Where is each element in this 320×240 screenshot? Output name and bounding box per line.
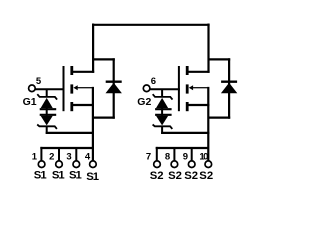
diode D1 body diode xyxy=(92,58,122,118)
wire top drain rail xyxy=(92,24,210,26)
node G1 terminal circle xyxy=(29,85,36,92)
Z2b cathode bar xyxy=(153,125,173,129)
wire right pin bus xyxy=(156,147,209,149)
svg-text:S2: S2 xyxy=(168,170,182,182)
wire Z2 middle vertical xyxy=(161,108,163,116)
svg-text:10: 10 xyxy=(199,151,208,162)
Z1b cathode bar xyxy=(37,125,57,129)
wire Z1 to source xyxy=(46,132,94,134)
wire Z1 top vertical xyxy=(46,89,48,97)
wire Q2 drain lead xyxy=(187,71,209,73)
Z2a cathode bar xyxy=(153,94,173,99)
D2 triangle xyxy=(221,83,237,93)
wire left pin bus xyxy=(40,147,93,149)
node pin 9 circle xyxy=(188,161,195,168)
Z2a triangle xyxy=(156,98,168,108)
Q1 gate bar xyxy=(63,66,65,111)
Z2a anode line xyxy=(155,108,172,110)
D2 cathode bar xyxy=(221,80,237,82)
wire Q1 drain lead xyxy=(72,71,94,73)
Z1a triangle xyxy=(41,98,53,108)
svg-text:S2: S2 xyxy=(199,170,213,182)
Z1b triangle xyxy=(41,116,53,126)
Q2 gate bar xyxy=(178,66,180,111)
svg-text:S2: S2 xyxy=(150,170,164,182)
svg-text:S2: S2 xyxy=(184,170,198,182)
wire D2 vertical xyxy=(228,58,230,118)
svg-text:G1: G1 xyxy=(23,96,37,108)
node pin 4 circle xyxy=(90,161,97,168)
node pin 7 circle xyxy=(154,161,161,168)
D1 cathode bar xyxy=(106,80,122,82)
wire Z2 bottom vertical xyxy=(161,126,163,134)
node pin 3 circle xyxy=(73,161,80,168)
wire left source/body vertical xyxy=(92,87,94,161)
wire Q2 body lead xyxy=(192,87,208,89)
node pin 2 circle xyxy=(56,161,63,168)
svg-text:9: 9 xyxy=(183,151,188,162)
wire Q1 source lead xyxy=(72,104,94,106)
Q1 body channel bar xyxy=(70,84,73,93)
svg-text:4: 4 xyxy=(85,151,91,162)
wire pin 9 stub xyxy=(191,148,193,161)
zener Z2b gate protection bottom xyxy=(153,115,173,134)
wire pin 1 stub xyxy=(40,147,42,161)
wire pin 3 stub xyxy=(75,148,77,161)
transistor Q2 xyxy=(179,66,210,111)
diode D2 body diode xyxy=(208,58,238,118)
Z1b anode line xyxy=(40,114,57,116)
Q2 drain channel bar xyxy=(186,66,189,75)
svg-text:S1: S1 xyxy=(69,170,82,182)
wire pin 7 stub xyxy=(156,147,158,161)
zener Z1a gate protection top xyxy=(37,89,57,109)
Q2 body arrow xyxy=(189,85,193,90)
svg-text:S1: S1 xyxy=(52,170,65,182)
wire right drain riser xyxy=(207,24,209,73)
svg-text:3: 3 xyxy=(66,151,71,162)
wire G1 gate lead xyxy=(35,88,64,90)
svg-text:8: 8 xyxy=(165,151,170,162)
svg-text:S1: S1 xyxy=(86,171,99,183)
Z1a anode line xyxy=(40,108,57,110)
zener Z1b gate protection bottom xyxy=(37,115,57,134)
wire pin 8 stub xyxy=(173,148,175,161)
wire left drain riser xyxy=(92,24,94,73)
Q1 drain channel bar xyxy=(70,66,73,75)
wire Q2 source lead xyxy=(187,104,209,106)
node pin 8 circle xyxy=(171,161,178,168)
svg-text:2: 2 xyxy=(49,151,54,162)
wire Z2 to source xyxy=(161,132,209,134)
svg-text:7: 7 xyxy=(146,151,151,162)
svg-text:1: 1 xyxy=(32,151,38,162)
wire D1 top branch xyxy=(92,58,115,60)
wire pin 2 stub xyxy=(58,148,60,161)
wire D2 top branch xyxy=(208,58,231,60)
svg-text:S1: S1 xyxy=(34,170,47,182)
svg-text:6: 6 xyxy=(151,76,156,87)
Q2 source channel bar xyxy=(186,102,189,111)
svg-text:5: 5 xyxy=(36,76,42,87)
svg-text:G2: G2 xyxy=(137,96,151,108)
Z2b triangle xyxy=(156,116,168,126)
zener Z2a gate protection top xyxy=(153,89,173,109)
wire right source/body vertical xyxy=(207,87,209,161)
Q2 body channel bar xyxy=(186,84,189,93)
node G2 terminal circle xyxy=(143,85,150,92)
wire D1 vertical xyxy=(113,58,115,118)
wire D2 bottom branch xyxy=(208,116,231,118)
transistor Q1 xyxy=(64,66,95,111)
node pin 10 circle xyxy=(205,161,212,168)
wire Z2 top vertical xyxy=(161,89,163,97)
wire G2 gate lead xyxy=(150,88,180,90)
Q1 source channel bar xyxy=(70,102,73,111)
D1 triangle xyxy=(106,83,122,93)
wire Z1 bottom vertical xyxy=(46,126,48,134)
node pin 1 circle xyxy=(38,161,45,168)
Z1a cathode bar xyxy=(37,94,57,99)
wire Q1 body lead xyxy=(77,87,93,89)
wire Z1 middle vertical xyxy=(46,108,48,116)
Q1 body arrow xyxy=(73,85,77,90)
wire D1 bottom branch xyxy=(92,116,115,118)
Z2b anode line xyxy=(155,114,172,116)
